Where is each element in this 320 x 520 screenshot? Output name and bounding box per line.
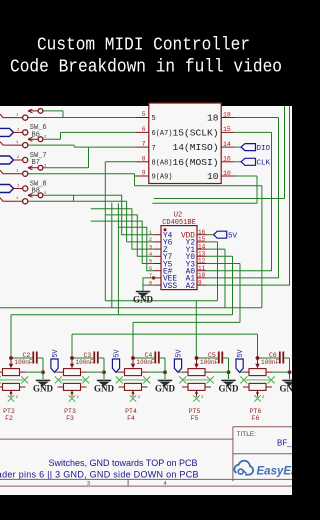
potentiometer PT3 track2: [58, 383, 87, 390]
wire SW row1 to U3 pin5: [28, 111, 136, 118]
svg-text:100nF: 100nF: [137, 359, 155, 366]
svg-text:Code Breakdown in full video: Code Breakdown in full video: [10, 58, 282, 78]
U2 pin 3 Z: [149, 244, 168, 255]
svg-text:F4: F4: [127, 415, 135, 422]
wire SW_8 to U3 pin8: [43, 162, 136, 196]
U3 pin 14 right: [172, 141, 234, 153]
svg-text:3: 3: [87, 481, 90, 487]
U2 pin 4 Y7: [149, 252, 173, 263]
U2 pin 10 A1: [186, 272, 206, 284]
ground PT5: [219, 372, 240, 393]
PT3 bottom pin no-connect: [69, 390, 80, 401]
svg-text:6: 6: [142, 126, 146, 133]
EasyEDA logo: [234, 461, 307, 478]
capacitor C4: [133, 352, 165, 373]
svg-text:11: 11: [198, 265, 206, 272]
svg-text:GND: GND: [280, 384, 293, 394]
junction U2 VEE: [152, 276, 155, 279]
switch SW_7 label: [30, 152, 47, 167]
svg-text:18: 18: [223, 111, 231, 118]
net flag 5V vertical: [112, 349, 121, 373]
svg-text:15: 15: [198, 236, 206, 243]
wire U2 Y2 to PT5: [105, 242, 217, 358]
junction C5 gnd: [227, 370, 231, 374]
U2 pin 16 VDD: [181, 229, 206, 241]
svg-text:DIO: DIO: [257, 145, 271, 153]
potentiometer PT2 track1: [0, 358, 43, 376]
junction C2 gnd: [41, 370, 45, 374]
wire left bus vertical 1: [104, 195, 106, 300]
svg-text:13: 13: [198, 251, 206, 258]
wire left bus vertical 3: [117, 203, 119, 314]
wire staircase to U2 E#: [118, 227, 153, 271]
ground PT6: [280, 372, 301, 393]
svg-text:5V: 5V: [176, 349, 184, 358]
capacitor C5: [197, 352, 229, 373]
title block box: [233, 427, 292, 481]
svg-text:5V: 5V: [114, 349, 122, 358]
svg-text:Custom MIDI Controller: Custom MIDI Controller: [37, 36, 250, 56]
svg-text:10: 10: [198, 272, 206, 279]
svg-text:1: 1: [149, 230, 152, 236]
svg-text:100nF: 100nF: [200, 359, 218, 366]
PT2 bottom pin no-connect: [8, 390, 19, 401]
PT2 F2 labels: [3, 408, 15, 422]
wire staircase to U2 Y4: [105, 195, 153, 234]
U2 pin 2 Y6: [149, 237, 173, 248]
U2 pin 7 VEE: [149, 273, 177, 284]
potentiometer PT2 wiper2 arrows: [0, 376, 28, 383]
svg-text:4: 4: [149, 252, 152, 258]
wire bus to PT3 and PT6: [72, 334, 258, 358]
net flag 5V vertical: [51, 349, 60, 373]
wire U3 pin16 to CLK flag: [235, 161, 241, 163]
junction PT3 wiper: [70, 356, 74, 360]
U2 pin 13 Y0: [186, 251, 206, 263]
wire U2 Y0 to PT2: [11, 256, 233, 358]
U2 pin 11 A0: [186, 265, 206, 277]
switch contact node row 3: [0, 170, 28, 177]
junction C3 gnd: [102, 370, 106, 374]
switch contact node row 1: [0, 114, 28, 121]
svg-text:5: 5: [142, 111, 146, 118]
switch SW_7 actuator: [28, 164, 47, 170]
U2 pin 1 Y4: [149, 230, 173, 241]
wire U3 pin14 to DIO flag: [235, 146, 241, 148]
svg-text:6(A7): 6(A7): [152, 130, 173, 138]
svg-text:9(A9): 9(A9): [152, 174, 173, 182]
svg-text:14: 14: [198, 243, 206, 250]
wire mid horizontal net: [154, 106, 285, 199]
junction PT5 wiper: [195, 356, 199, 360]
potentiometer PT6 track2: [243, 383, 272, 390]
svg-text:GND: GND: [155, 384, 176, 394]
ground PT2: [33, 372, 54, 393]
svg-text:100nF: 100nF: [261, 359, 279, 366]
wire left bus vertical 2: [111, 203, 113, 308]
U3 pin 6 left: [136, 126, 173, 138]
U3 pin 16 right: [172, 156, 234, 168]
svg-text:EasyEDA: EasyEDA: [257, 466, 293, 478]
switch contact node row 2: [0, 141, 28, 148]
switch actuator cut by top bar: [28, 109, 43, 114]
note text line 1: [49, 458, 198, 468]
wire staircase to U2 Y7: [105, 215, 153, 256]
port flag B8: [0, 185, 28, 193]
potentiometer PT3 wiper2 arrows: [55, 376, 89, 383]
U2 pin 6 E#: [149, 266, 173, 277]
svg-text:A2: A2: [186, 283, 196, 291]
svg-text:100nF: 100nF: [76, 359, 94, 366]
capacitor C3: [72, 352, 104, 373]
junction PT2 wiper: [9, 356, 13, 360]
net flag 5V vertical: [236, 349, 245, 373]
title block BF_: [277, 439, 292, 448]
PT5 bottom pin no-connect: [193, 390, 204, 401]
svg-text:GND: GND: [133, 295, 154, 305]
switch SW_8 actuator: [28, 192, 47, 198]
switch SW_6 label: [30, 124, 47, 139]
wire U3 pin18 to U2 A1: [206, 118, 279, 278]
wire SW_6 to U3 pin6: [43, 132, 136, 139]
PT6 F6 labels: [250, 408, 262, 422]
svg-text:F6: F6: [252, 415, 260, 422]
potentiometer PT4 wiper2 arrows: [116, 376, 150, 383]
svg-text:9: 9: [198, 279, 202, 286]
wire U2 Y3 to PT4: [133, 264, 240, 359]
junction C4 gnd: [163, 370, 167, 374]
wire staircase to U2 Y5: [91, 221, 154, 263]
svg-text:16(MOSI): 16(MOSI): [172, 157, 218, 168]
IC U2 designator: [162, 212, 196, 227]
wire 5V to PT4: [116, 371, 119, 373]
capacitor C2: [11, 352, 43, 373]
U3 pin 9 left: [136, 170, 173, 182]
potentiometer PT6 track1: [243, 358, 290, 376]
svg-text:5V: 5V: [52, 349, 60, 358]
wire staircase to U2 Z: [91, 209, 154, 249]
ground U2: [133, 292, 154, 305]
svg-text:100nF: 100nF: [15, 359, 33, 366]
svg-text:3: 3: [149, 244, 152, 250]
junction PT6 wiper: [256, 356, 260, 360]
op IC U3 body: [149, 103, 221, 184]
wire net bus full width: [0, 307, 262, 309]
U3 pin 15 right: [172, 126, 234, 138]
wire U3 pin9 row: [28, 174, 262, 308]
svg-text:9: 9: [142, 170, 146, 177]
net flag 5V vertical: [174, 349, 183, 373]
potentiometer PT4 track1: [119, 358, 166, 376]
svg-text:14(MISO): 14(MISO): [172, 142, 218, 153]
ground PT3: [94, 372, 115, 393]
svg-text:12: 12: [198, 258, 206, 265]
svg-text:GND: GND: [33, 384, 54, 394]
port flag B7: [0, 156, 28, 164]
ground PT4: [155, 372, 176, 393]
potentiometer PT4 track2: [119, 383, 148, 390]
switch SW_8 label: [30, 180, 47, 195]
port flag B6: [0, 128, 28, 136]
svg-text:F2: F2: [5, 415, 13, 422]
svg-text:F3: F3: [66, 415, 74, 422]
svg-text:PT2: PT2: [3, 408, 15, 415]
wire U2 A2 right edge: [206, 106, 290, 285]
svg-text:5: 5: [149, 259, 152, 265]
net flag CLK: [241, 158, 271, 167]
svg-text:5: 5: [152, 115, 156, 123]
U3 pin 7 left: [136, 141, 156, 153]
potentiometer PT5 track1: [182, 358, 229, 376]
svg-text:5V: 5V: [237, 349, 245, 358]
potentiometer PT2 track2: [0, 383, 26, 390]
capacitor C6: [258, 352, 290, 373]
IC U2 CD4051BE body: [161, 226, 197, 290]
svg-text:5V: 5V: [228, 232, 238, 240]
PT3 F3 labels: [64, 408, 76, 422]
svg-text:18: 18: [207, 113, 219, 124]
wire 5V to PT5: [179, 371, 182, 373]
switch contact node row 4: [0, 197, 28, 204]
svg-text:CLK: CLK: [257, 160, 271, 168]
PT4 F4 labels: [125, 408, 137, 422]
svg-text:BF_: BF_: [277, 439, 292, 448]
svg-text:15: 15: [223, 126, 231, 133]
U2 pin 12 Y3: [186, 258, 206, 270]
wire SW row2 to U3 pin7: [28, 145, 136, 168]
U2 pin 5 Y5: [149, 259, 173, 270]
svg-text:TITLE:: TITLE:: [237, 431, 257, 438]
junction PT4 wiper: [131, 356, 135, 360]
svg-text:GND: GND: [219, 384, 240, 394]
net flag DIO: [241, 144, 271, 153]
U3 pin 10 right: [207, 170, 235, 182]
potentiometer PT5 wiper2 arrows: [179, 376, 213, 383]
potentiometer PT5 track2: [182, 383, 211, 390]
svg-text:2: 2: [149, 237, 152, 243]
wire 5V to PT3: [55, 371, 58, 373]
potentiometer PT6 wiper2 arrows: [240, 376, 274, 383]
U2 pin 15 Y2: [186, 236, 206, 248]
wire 5V to PT6: [240, 371, 243, 373]
potentiometer PT3 track1: [58, 358, 105, 376]
svg-text:7: 7: [152, 145, 156, 153]
switch SW_6 actuator: [28, 136, 47, 142]
svg-text:PT6: PT6: [250, 408, 262, 415]
svg-text:4: 4: [164, 481, 167, 487]
svg-text:8(A8): 8(A8): [152, 160, 173, 168]
net flag 5V at U2 VDD: [206, 231, 238, 240]
wire U3 pin15 to U2 A0: [206, 132, 272, 270]
U3 pin 5 left: [136, 111, 156, 123]
svg-text:16: 16: [198, 229, 206, 236]
PT4 bottom pin no-connect: [130, 390, 141, 401]
title block TITLE label: [237, 431, 257, 438]
svg-text:10: 10: [207, 171, 219, 182]
wire U2 Y1 bus: [206, 249, 225, 308]
junction C6 gnd: [288, 370, 292, 374]
svg-text:PT3: PT3: [64, 408, 76, 415]
sheet border bottom: [0, 479, 292, 487]
svg-text:7: 7: [142, 141, 146, 148]
U2 pin 8 VSS: [149, 280, 177, 291]
wire U2 VEE VSS to ground: [143, 278, 154, 292]
note text line 2: [0, 470, 199, 480]
svg-text:15(SCLK): 15(SCLK): [172, 127, 218, 138]
svg-text:14: 14: [223, 141, 231, 148]
svg-text:PT4: PT4: [125, 408, 137, 415]
svg-text:6: 6: [149, 266, 152, 272]
wire staircase to U2 Y6: [28, 195, 154, 242]
U3 pin 8 left: [136, 155, 173, 167]
PT5 F5 labels: [189, 408, 201, 422]
sheet frame line: [0, 438, 233, 440]
U2 pin 14 Y1: [186, 243, 206, 255]
svg-text:10: 10: [223, 170, 231, 177]
svg-text:VSS: VSS: [163, 283, 177, 291]
svg-text:8: 8: [142, 155, 146, 162]
svg-text:F5: F5: [191, 415, 199, 422]
U2 pin 9 A2: [186, 279, 206, 291]
svg-text:16: 16: [223, 156, 231, 163]
svg-text:fader pins 6 || 3 GND, GND sid: fader pins 6 || 3 GND, GND side DOWN on …: [0, 470, 199, 480]
U3 pin 18 right: [207, 111, 235, 123]
wire U3 pin10 down left: [152, 176, 257, 203]
svg-text:Switches, GND towards TOP on P: Switches, GND towards TOP on PCB: [49, 458, 198, 468]
svg-text:GND: GND: [94, 384, 115, 394]
PT6 bottom pin no-connect: [254, 390, 265, 401]
svg-text:PT5: PT5: [189, 408, 201, 415]
